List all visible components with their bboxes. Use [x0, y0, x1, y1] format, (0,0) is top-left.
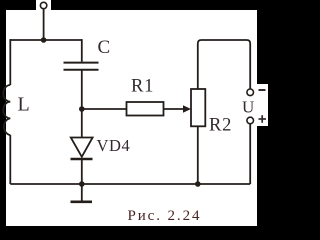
terminal T1 (top antenna terminal): [40, 2, 46, 8]
label plus (drawn cross): [259, 118, 267, 120]
wire: R1 to potentiometer wiper arrow: [164, 108, 186, 110]
wire: diode VD4 anode pin: [81, 109, 83, 138]
svg-text:C: C: [98, 37, 111, 58]
junction: diode to bottom rail: [79, 181, 85, 187]
inductor L arcs: [3, 85, 10, 135]
wire: bottom rail: [10, 183, 250, 185]
wire: R2 top pin up and over to minus terminal: [198, 40, 250, 89]
terminal T2 (output minus): [247, 89, 254, 96]
diode VD4 triangle: [71, 138, 93, 157]
capacitor C plates: [64, 63, 99, 70]
wire: R2 bottom pin: [197, 126, 199, 184]
wire: left branch top (corner down to inductor): [9, 39, 11, 85]
resistor R1 body: [127, 102, 164, 116]
ground symbol stem: [81, 184, 83, 201]
svg-text:Рис. 2.24: Рис. 2.24: [128, 208, 202, 224]
junction: top rail / terminal wire: [41, 37, 47, 43]
wire: diode cathode to bottom rail: [81, 159, 83, 184]
potentiometer R2 body: [191, 89, 205, 126]
terminal T3 (output plus): [247, 117, 254, 124]
label minus (drawn dash): [259, 89, 266, 91]
wire: left branch bottom (inductor to bottom rail): [9, 135, 11, 184]
svg-text:VD4: VD4: [97, 136, 131, 155]
wire: capacitor top pin: [81, 39, 83, 62]
wire: plus terminal down right side: [249, 124, 251, 184]
white schematic background: [6, 0, 268, 226]
svg-text:R1: R1: [131, 77, 154, 97]
wire: top rail (left corner to capacitor branch): [10, 39, 82, 41]
wire: top terminal down to top rail: [43, 9, 45, 40]
svg-text:R2: R2: [209, 116, 232, 136]
junction: node A (cap, R1, diode): [79, 106, 85, 112]
ground symbol bar: [71, 201, 93, 204]
wire: node A to resistor R1: [82, 108, 127, 110]
junction: R2 pin to bottom rail: [195, 181, 201, 187]
svg-text:L: L: [18, 94, 30, 116]
arrowhead of R2 wiper: [183, 105, 191, 113]
diode VD4 cathode bar: [71, 158, 93, 160]
svg-text:U: U: [242, 98, 254, 117]
wire: capacitor bottom pin down to node A: [81, 70, 83, 109]
